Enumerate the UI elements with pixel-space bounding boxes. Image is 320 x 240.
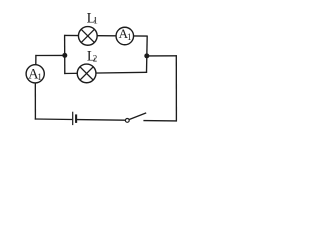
wire bottom-right after switch xyxy=(143,120,177,122)
junction node left xyxy=(62,53,67,58)
wire battery to switch xyxy=(77,119,125,122)
wire right outer vertical xyxy=(175,55,177,121)
junction node right xyxy=(144,53,149,58)
lamp L1 xyxy=(78,27,97,46)
battery cell: short thick negative plate xyxy=(75,114,77,123)
wire L2 row xyxy=(64,72,147,73)
wire top row xyxy=(65,34,148,37)
wire mid-left horizontal xyxy=(35,54,64,56)
wire stub above ammeter A xyxy=(35,55,37,74)
switch S lever xyxy=(129,113,146,120)
ammeter A1 (main-line meter) xyxy=(26,65,44,83)
ammeter A1 (branch meter, in series with lamp L1) xyxy=(116,26,134,45)
wire below ammeter A xyxy=(34,74,36,120)
wire bottom-left to battery xyxy=(35,118,72,121)
battery cell: long thin positive plate xyxy=(72,112,74,125)
svg-text:1: 1 xyxy=(127,32,132,42)
lamp L2 xyxy=(77,64,96,83)
svg-text:1: 1 xyxy=(37,72,42,82)
switch S hinge xyxy=(125,119,129,123)
svg-text:1: 1 xyxy=(93,17,98,27)
svg-text:2: 2 xyxy=(93,53,98,63)
wire right inner vertical xyxy=(146,36,149,73)
wire mid-right horizontal xyxy=(147,55,177,57)
wire left inner vertical xyxy=(64,35,66,74)
